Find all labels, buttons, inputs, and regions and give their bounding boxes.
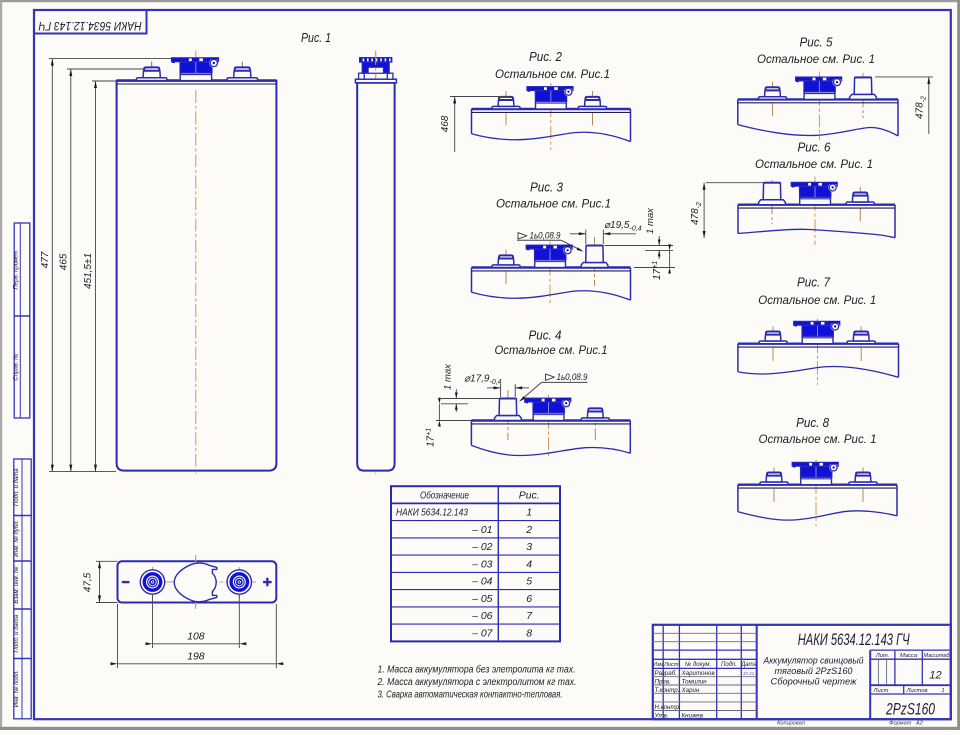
svg-text:Лист: Лист xyxy=(873,688,889,694)
svg-text:НАКИ 5634.12.143 ГЧ: НАКИ 5634.12.143 ГЧ xyxy=(38,19,142,33)
svg-text:Масштаб: Масштаб xyxy=(924,653,951,659)
svg-text:– 07: – 07 xyxy=(471,627,494,639)
svg-text:Разраб.: Разраб. xyxy=(655,670,677,677)
svg-text:198: 198 xyxy=(187,651,205,663)
svg-text:Т.контр.: Т.контр. xyxy=(655,687,680,694)
svg-text:1. Масса аккумулятора без элет: 1. Масса аккумулятора без элетролита кг … xyxy=(378,664,576,676)
svg-text:Обозначение: Обозначение xyxy=(420,490,469,502)
svg-text:6: 6 xyxy=(526,593,532,605)
svg-text:Рис. 4: Рис. 4 xyxy=(529,328,562,343)
svg-text:3. Сварка автоматическая конта: 3. Сварка автоматическая контактно-тепло… xyxy=(378,690,563,701)
svg-text:1ь0,08.9: 1ь0,08.9 xyxy=(557,372,588,382)
svg-text:1 max: 1 max xyxy=(442,363,453,390)
svg-text:Харин: Харин xyxy=(681,687,700,694)
svg-text:12: 12 xyxy=(929,670,941,682)
svg-text:Копировал: Копировал xyxy=(777,721,806,727)
svg-text:Листов: Листов xyxy=(905,688,927,694)
svg-text:– 02: – 02 xyxy=(471,541,493,553)
svg-text:Рис. 1: Рис. 1 xyxy=(301,30,331,45)
svg-text:Рис. 2: Рис. 2 xyxy=(529,49,563,64)
svg-text:477: 477 xyxy=(40,251,51,268)
svg-text:1: 1 xyxy=(941,688,944,694)
svg-text:2. Масса аккумулятора с электр: 2. Масса аккумулятора с электролитом кг … xyxy=(377,677,577,688)
svg-text:НАКИ 5634.12.143 ГЧ: НАКИ 5634.12.143 ГЧ xyxy=(798,632,910,650)
svg-text:Инв. № дубл.: Инв. № дубл. xyxy=(13,520,20,557)
svg-text:108: 108 xyxy=(187,631,205,643)
svg-text:– 05: – 05 xyxy=(471,593,493,605)
svg-text:– 06: – 06 xyxy=(471,610,493,622)
svg-text:Остальное см. Рис. 1: Остальное см. Рис. 1 xyxy=(757,52,875,66)
svg-text:Книжев: Книжев xyxy=(682,712,704,719)
svg-text:1: 1 xyxy=(526,507,532,519)
svg-text:1 max: 1 max xyxy=(645,207,656,234)
svg-text:Аккумулятор свинцовый: Аккумулятор свинцовый xyxy=(763,656,865,667)
svg-text:Остальное см. Рис. 1: Остальное см. Рис. 1 xyxy=(755,157,873,171)
svg-text:тяговый 2PzS160: тяговый 2PzS160 xyxy=(775,666,854,677)
svg-text:4: 4 xyxy=(526,558,532,570)
svg-text:Н.контр.: Н.контр. xyxy=(655,704,681,711)
svg-text:451,5±1: 451,5±1 xyxy=(83,253,94,289)
svg-text:465: 465 xyxy=(59,253,70,270)
svg-text:Подп.: Подп. xyxy=(721,662,737,668)
svg-text:Лист: Лист xyxy=(663,662,679,668)
svg-text:Остальное см. Рис. 1: Остальное см. Рис. 1 xyxy=(758,293,876,307)
svg-text:Дата: Дата xyxy=(740,662,757,668)
svg-text:2: 2 xyxy=(525,524,532,536)
svg-text:47,5: 47,5 xyxy=(83,572,94,592)
svg-text:Масса: Масса xyxy=(900,653,918,659)
svg-text:Рис. 7: Рис. 7 xyxy=(797,275,831,290)
svg-text:2PzS160: 2PzS160 xyxy=(885,701,935,718)
svg-text:Пров.: Пров. xyxy=(655,679,671,686)
svg-text:Рис. 5: Рис. 5 xyxy=(800,35,834,50)
svg-text:Перв. примен.: Перв. примен. xyxy=(13,250,19,290)
svg-text:3: 3 xyxy=(526,541,532,553)
svg-text:Остальное см. Рис.1: Остальное см. Рис.1 xyxy=(496,197,611,211)
svg-text:Справ. №: Справ. № xyxy=(12,353,19,381)
svg-text:Остальное см. Рис.1: Остальное см. Рис.1 xyxy=(495,343,608,357)
svg-text:10.21: 10.21 xyxy=(743,671,755,676)
svg-text:НАКИ 5634.12.143: НАКИ 5634.12.143 xyxy=(396,507,468,519)
svg-text:Взам. инв. №: Взам. инв. № xyxy=(13,566,20,604)
svg-text:Подп. и дата: Подп. и дата xyxy=(14,614,20,652)
svg-text:Изм: Изм xyxy=(653,662,664,668)
svg-text:Подп. и дата: Подп. и дата xyxy=(14,468,20,506)
svg-text:1ь0,08.9: 1ь0,08.9 xyxy=(530,231,561,241)
svg-text:8: 8 xyxy=(526,627,532,639)
svg-text:Формат А2: Формат А2 xyxy=(889,721,924,727)
svg-text:Лит.: Лит. xyxy=(875,653,890,659)
svg-text:Рис. 3: Рис. 3 xyxy=(530,180,564,195)
svg-text:Остальное см. Рис. 1: Остальное см. Рис. 1 xyxy=(759,432,877,446)
svg-text:Томилин: Томилин xyxy=(682,679,708,686)
svg-text:5: 5 xyxy=(526,576,532,588)
svg-text:Утв.: Утв. xyxy=(654,712,669,719)
svg-text:Остальное см. Рис.1: Остальное см. Рис.1 xyxy=(495,67,610,81)
svg-text:Харитонов: Харитонов xyxy=(681,670,716,677)
svg-text:– 04: – 04 xyxy=(471,576,493,588)
svg-text:– 03: – 03 xyxy=(471,558,493,570)
svg-text:Сборочный чертеж: Сборочный чертеж xyxy=(771,677,857,688)
svg-text:Рис. 6: Рис. 6 xyxy=(798,140,832,155)
svg-text:№ докум.: № докум. xyxy=(685,661,711,668)
svg-text:– 01: – 01 xyxy=(471,524,492,536)
svg-text:Рис.: Рис. xyxy=(519,490,540,502)
svg-text:Рис. 8: Рис. 8 xyxy=(796,415,830,430)
svg-text:468: 468 xyxy=(440,115,451,132)
svg-text:Инв. № подл.: Инв. № подл. xyxy=(13,670,20,707)
